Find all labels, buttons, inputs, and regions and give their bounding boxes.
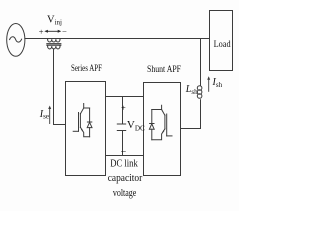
Q2 gate bar <box>166 114 168 136</box>
D1 cathode bar <box>87 121 91 123</box>
D1 diode branch <box>89 108 91 137</box>
Q2 emitter line <box>152 129 165 140</box>
transformer T1 secondary winding <box>48 46 60 49</box>
arrow Ish (up) <box>208 78 210 92</box>
transformer T1 primary winding <box>48 39 60 42</box>
igbt Q2 (shunt APF) <box>149 105 172 140</box>
svg-text:Load: Load <box>214 40 231 50</box>
wire capacitor branch top <box>122 97 124 125</box>
Q1 body bar <box>79 114 81 128</box>
D2 triangle <box>149 124 154 130</box>
capacitor C plates <box>117 124 125 131</box>
ac source VS <box>7 24 25 57</box>
svg-text:DC link: DC link <box>110 158 138 169</box>
Q2 body bar <box>164 115 166 129</box>
Q2 collector angle <box>162 110 165 116</box>
svg-text:capacitor: capacitor <box>108 173 143 184</box>
wire main line <box>25 38 210 40</box>
arrow Vinj double-headed <box>46 30 60 32</box>
inductor Lsh coil <box>197 86 202 91</box>
svg-text:Shunt APF: Shunt APF <box>147 64 181 74</box>
Q2 gate lead <box>167 135 172 137</box>
wire transformer secondary to series APF <box>54 49 66 125</box>
Q2 collector lead <box>152 105 162 109</box>
transformer T1 core <box>47 44 61 46</box>
series APF box <box>66 82 106 176</box>
svg-text:Series APF: Series APF <box>71 63 102 73</box>
wire DC link bottom rail <box>106 155 144 157</box>
sine symbol <box>10 37 22 42</box>
Q1 gate bar <box>78 113 80 132</box>
svg-text:−: − <box>121 147 127 158</box>
Q1 gate lead <box>73 130 78 132</box>
shunt APF box <box>144 83 181 176</box>
svg-text:voltage: voltage <box>113 188 137 199</box>
igbt Q1 (series APF) <box>73 104 92 137</box>
Q1 emitter arrowhead <box>81 129 84 133</box>
load box <box>210 11 233 71</box>
wire shunt branch to shunt APF <box>181 128 201 130</box>
wire capacitor branch bottom <box>122 131 124 156</box>
D1 triangle <box>87 122 92 127</box>
Q2 emitter arrowhead <box>161 130 164 134</box>
svg-text:−: − <box>62 27 67 37</box>
D2 diode branch <box>151 110 153 140</box>
Q1 collector angle <box>80 108 83 114</box>
Q1 emitter line <box>80 127 89 137</box>
Q1 collector lead <box>84 104 90 109</box>
svg-text:+: + <box>39 26 44 36</box>
D2 cathode bar <box>150 123 154 125</box>
svg-text:+: + <box>121 103 126 113</box>
wire shunt branch vertical <box>200 39 202 129</box>
arrow Ise (up) <box>49 107 51 124</box>
wire DC link top rail <box>106 96 144 98</box>
